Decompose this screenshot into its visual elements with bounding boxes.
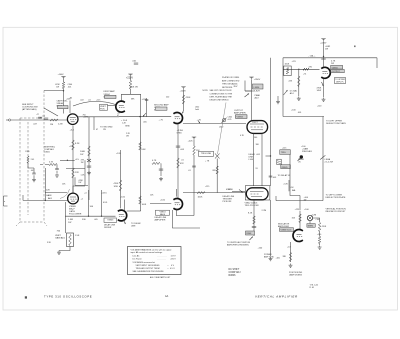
vertical x101 y190-216 xyxy=(101,190,103,216)
svg-text:DEFL PLATES AND THE: DEFL PLATES AND THE xyxy=(210,95,233,98)
shield dashed box left xyxy=(19,118,21,222)
capacitor C322 xyxy=(134,63,138,64)
svg-text:.01: .01 xyxy=(188,170,191,172)
svg-text:+225: +225 xyxy=(292,61,296,63)
resistor R3892 xyxy=(298,76,301,87)
coil L384A on defl wire xyxy=(320,155,325,159)
pointer line from note xyxy=(218,103,227,155)
svg-text:47K: 47K xyxy=(180,163,184,165)
svg-text:ADJ: ADJ xyxy=(255,96,259,99)
svg-text:4.7K: 4.7K xyxy=(49,162,54,164)
ground mid-left xyxy=(55,173,59,177)
svg-text:INDICATOR: INDICATOR xyxy=(278,223,290,226)
curved jumper to first amp xyxy=(73,101,116,106)
svg-text:+4: +4 xyxy=(81,198,83,200)
junction arrow y123 xyxy=(198,121,200,124)
resistor R307 xyxy=(72,168,75,178)
svg-text:470K: 470K xyxy=(186,97,191,99)
svg-text:12BY7: 12BY7 xyxy=(252,122,258,124)
svg-text:1mH: 1mH xyxy=(195,109,200,111)
svg-text:4.7K: 4.7K xyxy=(152,160,157,162)
capacitor C310 xyxy=(87,166,91,167)
wire V384B plate top xyxy=(73,186,85,193)
svg-text:AMPLIFIER (TRIGGER): AMPLIFIER (TRIGGER) xyxy=(227,244,249,247)
svg-text:.005: .005 xyxy=(143,122,147,124)
wire rail to grid node xyxy=(63,79,65,114)
svg-text:+225: +225 xyxy=(188,141,194,143)
wire V3853 grid in xyxy=(150,203,171,205)
tube V384A xyxy=(67,114,78,125)
wire inner y69 xyxy=(283,68,320,70)
svg-text:+100: +100 xyxy=(66,98,70,100)
svg-text:+100: +100 xyxy=(317,105,321,107)
svg-text:TYPE 310 OSCILLOSCOPE: TYPE 310 OSCILLOSCOPE xyxy=(44,295,92,299)
wire vertical x146 xyxy=(146,98,148,117)
cap on rail wire xyxy=(321,58,325,59)
svg-text:CONNECTIONS TO THE: CONNECTIONS TO THE xyxy=(210,93,233,95)
svg-text:SEE CRT CIRCUIT FOR: SEE CRT CIRCUIT FOR xyxy=(210,90,233,92)
svg-text:R3845: R3845 xyxy=(282,167,289,169)
svg-text:GAIN: GAIN xyxy=(46,194,52,197)
label V3894 box xyxy=(236,115,248,119)
svg-text:22K: 22K xyxy=(75,172,79,174)
cap on x178 xyxy=(176,146,180,147)
ground below tube xyxy=(322,98,326,102)
svg-text:2KV: 2KV xyxy=(234,86,239,88)
trigger takeoff box xyxy=(280,150,291,155)
wire bus y216 xyxy=(65,215,116,217)
ground pot xyxy=(57,251,61,255)
resistor inner h xyxy=(303,68,309,70)
resistor R332 xyxy=(182,95,185,104)
delay line termination xyxy=(222,119,225,122)
svg-text:LAMP DS3894: LAMP DS3894 xyxy=(289,274,303,277)
svg-text:6.8K: 6.8K xyxy=(142,149,147,151)
svg-text:C340: C340 xyxy=(25,151,29,153)
svg-text:1W: 1W xyxy=(81,162,84,164)
dark box PLQ xyxy=(246,231,255,235)
gain pot dot xyxy=(300,155,303,158)
shield inner ground xyxy=(32,178,36,182)
wire oval1 pins down xyxy=(254,133,263,186)
resistor R304 xyxy=(62,82,65,89)
wire rail to tube xyxy=(323,41,325,66)
svg-text:R3846: R3846 xyxy=(229,275,237,277)
junction dot bus xyxy=(88,216,89,217)
wire y90 to shield xyxy=(44,90,64,92)
svg-text:NETWORK.: NETWORK. xyxy=(222,87,233,89)
svg-text:22K: 22K xyxy=(289,80,293,82)
svg-text:NOTE: NOTE xyxy=(203,90,209,92)
svg-text:47: 47 xyxy=(96,129,98,131)
svg-text:TO DELAY 93: TO DELAY 93 xyxy=(278,174,291,177)
wire x299 down xyxy=(298,69,300,96)
wire x194 down xyxy=(193,140,195,216)
wire pot to ground xyxy=(59,247,70,251)
shield dashed box right xyxy=(43,118,45,222)
ground right of oval1 xyxy=(276,100,280,104)
dc bal pot box xyxy=(284,66,291,76)
svg-text:.01: .01 xyxy=(181,159,184,161)
svg-text:AA: AA xyxy=(165,295,169,298)
cap C365 xyxy=(252,227,256,228)
boxed label trig xyxy=(199,151,214,156)
wire x300 to tube xyxy=(299,211,301,230)
svg-text:. . . . . . . . .: . . . . . . . . . xyxy=(157,259,166,261)
capacitor C301 on input wire xyxy=(44,118,48,119)
svg-text:GRID: GRID xyxy=(125,125,130,127)
dark box V3894 right xyxy=(331,65,343,69)
svg-text:1W: 1W xyxy=(103,129,106,131)
wire tube down xyxy=(323,79,325,97)
svg-text:AMPLIFIER: AMPLIFIER xyxy=(234,112,246,115)
box to upper defl xyxy=(335,78,346,84)
svg-text:+350V: +350V xyxy=(254,79,261,81)
svg-text:+100: +100 xyxy=(276,258,280,260)
box around V3842 xyxy=(245,186,270,200)
wire V384A out right xyxy=(78,116,119,118)
cap mid-left xyxy=(55,169,59,170)
wire y168 left xyxy=(66,167,85,169)
svg-text:6AU6: 6AU6 xyxy=(160,213,166,216)
tube V3894b output xyxy=(321,67,330,78)
wire vertical x89 xyxy=(88,117,90,200)
capacitor C302 input xyxy=(38,117,42,118)
resistor R3894a xyxy=(318,223,321,232)
wire bus y116 xyxy=(119,116,171,118)
wire long x270 xyxy=(270,58,272,186)
svg-text:93: 93 xyxy=(256,168,258,170)
input connector J1 xyxy=(6,119,9,121)
wire mid-left xyxy=(56,165,58,174)
resistor on x178 xyxy=(177,158,180,168)
box B3894 xyxy=(307,224,315,228)
pot arrow mid xyxy=(245,94,250,98)
wire lamp down xyxy=(309,221,311,224)
svg-text:V3894: V3894 xyxy=(332,67,339,69)
svg-text:2.2M: 2.2M xyxy=(262,210,267,212)
svg-text:+100V: +100V xyxy=(58,74,65,76)
svg-text:DEFLECTION PLATE: DEFLECTION PLATE xyxy=(326,122,347,125)
svg-text:SECOND AMP: SECOND AMP xyxy=(154,103,169,106)
bracket cap xyxy=(245,81,254,92)
svg-text:2W: 2W xyxy=(331,63,334,65)
svg-text:117 V: 117 V xyxy=(171,256,177,258)
resistor R301 on input wire xyxy=(50,119,58,121)
arrow dc bal xyxy=(284,90,288,95)
svg-text:L3894: L3894 xyxy=(254,87,261,89)
svg-text:220: 220 xyxy=(166,96,169,98)
svg-text:225 V: 225 V xyxy=(171,259,177,261)
svg-text:+125: +125 xyxy=(96,99,100,101)
junction X x217 xyxy=(215,154,220,159)
wire x270 lower xyxy=(270,200,272,256)
svg-text:VERTICAL POSITION: VERTICAL POSITION xyxy=(326,208,347,211)
svg-text:150K 1W: 150K 1W xyxy=(130,87,138,89)
svg-text:+225: +225 xyxy=(83,117,89,119)
svg-text:V3843: V3843 xyxy=(107,220,114,222)
wire rail down elbow xyxy=(121,77,140,101)
svg-text:(ATTEN DIAG): (ATTEN DIAG) xyxy=(22,108,37,111)
wire y160 left xyxy=(60,159,75,161)
svg-text:ADJ: ADJ xyxy=(290,92,294,95)
wire defl lower xyxy=(276,196,323,201)
svg-text:TO SW GRID: TO SW GRID xyxy=(100,127,113,129)
mark bottom left xyxy=(25,296,27,298)
svg-text:VOLTAGE READINGS are DC wi: VOLTAGE READINGS are DC with no signal xyxy=(131,248,172,251)
resistor R339 h xyxy=(152,162,160,164)
wire into oval1 top xyxy=(245,80,252,121)
wire defl plate drop xyxy=(322,117,324,201)
svg-text:100K: 100K xyxy=(80,151,86,153)
svg-text:100K: 100K xyxy=(198,196,203,198)
svg-text:DRIVER: DRIVER xyxy=(104,227,112,229)
svg-text:470K: 470K xyxy=(114,183,119,185)
peaking coil box xyxy=(253,84,264,89)
svg-text:. . . . . . . . . .: . . . . . . . . . . xyxy=(157,256,167,258)
wire cathode out bottom xyxy=(65,202,67,233)
svg-text:0.5 V: 0.5 V xyxy=(170,268,175,270)
svg-text:+225: +225 xyxy=(205,186,209,188)
svg-text:560: 560 xyxy=(254,137,257,139)
wire out V3843 right xyxy=(127,210,141,212)
svg-text:1W: 1W xyxy=(304,200,307,202)
interconnect box top right xyxy=(283,58,377,117)
ground x270 xyxy=(269,257,273,261)
resistor R3894b xyxy=(318,236,321,243)
svg-text:VERTICAL AMPLIFIER: VERTICAL AMPLIFIER xyxy=(255,295,298,299)
svg-text:ADJ: ADJ xyxy=(48,197,52,200)
svg-text:THRU DELAY: THRU DELAY xyxy=(222,83,235,86)
svg-text:B3894: B3894 xyxy=(308,226,313,228)
tube V3833 xyxy=(293,230,303,242)
tube V3844 first amp xyxy=(116,101,125,112)
resistor R3835 xyxy=(289,253,292,262)
svg-text:V3894: V3894 xyxy=(237,117,244,119)
rail +225 x194 xyxy=(192,137,196,140)
wire grid2 lower seg xyxy=(23,199,68,201)
tube V3853 xyxy=(173,199,182,210)
left edge connector marks xyxy=(4,196,8,206)
svg-text:8.2K: 8.2K xyxy=(75,143,80,145)
svg-text:1W: 1W xyxy=(78,182,81,184)
ground x299 xyxy=(297,97,301,101)
svg-text:DELAY LINE SHIELD: DELAY LINE SHIELD xyxy=(210,99,230,102)
svg-text:22K: 22K xyxy=(46,190,50,192)
resistor R306 cathode xyxy=(72,140,75,150)
tube V3843 delay driver xyxy=(118,210,127,221)
svg-text:470K: 470K xyxy=(322,226,327,228)
svg-text:TO VERTICAL POSITION: TO VERTICAL POSITION xyxy=(227,241,251,244)
ground lamp chain xyxy=(318,245,322,249)
svg-text:L342: L342 xyxy=(219,127,223,129)
svg-text:2.2K: 2.2K xyxy=(284,183,289,185)
power rail +225V top xyxy=(128,74,132,77)
svg-text:DELAY: DELAY xyxy=(249,153,256,156)
svg-text:TRIGGER OUTPUT TERM: TRIGGER OUTPUT TERM xyxy=(136,268,160,270)
svg-text:FIRST AMP: FIRST AMP xyxy=(104,90,116,93)
wire x290 down xyxy=(290,155,300,211)
svg-text:DEFL PL: DEFL PL xyxy=(336,81,345,83)
svg-text:A B C SEE PARTS LIS: A B C SEE PARTS LIST xyxy=(150,276,171,279)
resistor R32 10W xyxy=(119,180,122,191)
junction y116 x140 xyxy=(139,116,140,117)
svg-text:+43.5: +43.5 xyxy=(101,193,107,195)
svg-text:AMP GRID: AMP GRID xyxy=(264,256,274,259)
svg-text:2.2M: 2.2M xyxy=(312,214,317,216)
svg-text:2.5-5.7uH: 2.5-5.7uH xyxy=(325,162,334,164)
power rail +100V left xyxy=(61,76,65,79)
pot R316 box xyxy=(67,233,74,247)
arrow on bus y192 xyxy=(239,189,243,192)
junction dot inner xyxy=(298,69,299,70)
ground x89 xyxy=(87,171,91,175)
wire V3845 out right xyxy=(183,123,246,125)
svg-text:AMPLIFIER: AMPLIFIER xyxy=(155,218,166,221)
tube V3842 oval xyxy=(246,188,268,200)
svg-text:TRIG LINE: TRIG LINE xyxy=(201,153,212,155)
svg-text:1W: 1W xyxy=(325,48,328,50)
tube V384B xyxy=(68,193,79,204)
junction dot rail xyxy=(323,56,324,57)
svg-text:SEE CALIBRATION PROCEDURE: SEE CALIBRATION PROCEDURE xyxy=(133,270,165,273)
pointer to grid xyxy=(44,108,58,116)
cap near x270 mid xyxy=(269,176,273,177)
rail +100V x185 xyxy=(181,87,185,90)
svg-text:15K: 15K xyxy=(196,150,200,152)
svg-text:6-8uH: 6-8uH xyxy=(254,90,260,92)
tube V3845 second amp xyxy=(173,113,182,124)
diode marker x89 xyxy=(87,159,91,162)
svg-text:2.2M: 2.2M xyxy=(58,123,63,125)
arc pointer to V384B xyxy=(60,189,70,199)
rail +225V right xyxy=(321,39,325,42)
shield dashed box bottom xyxy=(16,222,47,226)
label V3853 box xyxy=(156,210,170,215)
resistor R345 on bus xyxy=(197,192,205,194)
wire vertical x120 xyxy=(120,150,122,208)
svg-text:+74: +74 xyxy=(303,73,306,75)
svg-text:GRID: GRID xyxy=(177,133,183,135)
svg-text:input. All controls at nor: input. All controls at normal settings. xyxy=(131,251,163,254)
wire x85 vertical xyxy=(75,160,88,185)
wire res to gnd xyxy=(319,232,321,246)
svg-text:8.2K: 8.2K xyxy=(248,212,253,214)
shield inner resistor xyxy=(27,156,29,163)
svg-text:+225V: +225V xyxy=(126,77,133,80)
svg-text:TRIG PICKOFF: TRIG PICKOFF xyxy=(245,205,260,207)
svg-text:GAIN ADJ: GAIN ADJ xyxy=(55,237,65,240)
arrow into V3845 xyxy=(183,110,184,114)
delay line label box xyxy=(281,165,291,169)
wire long vertical x140 xyxy=(140,94,142,211)
tube V3894 oval xyxy=(247,121,268,134)
junction x270 y156 xyxy=(266,155,271,157)
svg-text:C3841: C3841 xyxy=(44,152,50,154)
svg-text:+100: +100 xyxy=(120,197,126,199)
svg-text:- CAL +: - CAL + xyxy=(309,54,317,57)
vertical x88 y190-216 xyxy=(88,190,90,216)
wire tube cathode xyxy=(290,242,292,262)
wire bus y192 xyxy=(183,192,246,194)
svg-text:+100: +100 xyxy=(69,146,73,148)
svg-text:DC SHIFT: DC SHIFT xyxy=(229,269,240,271)
svg-text:100K: 100K xyxy=(285,63,290,65)
ground ind xyxy=(289,264,293,268)
svg-text:DEFLECTION PLATE: DEFLECTION PLATE xyxy=(326,196,347,199)
svg-text:INDICATOR CIRCUIT: INDICATOR CIRCUIT xyxy=(326,210,347,213)
resistor R365 xyxy=(253,216,256,224)
svg-text:.005: .005 xyxy=(273,177,277,179)
svg-text:+100: +100 xyxy=(317,234,321,236)
arrow under V3843 xyxy=(123,219,126,224)
svg-text:7-45: 7-45 xyxy=(31,159,35,161)
svg-text:.001: .001 xyxy=(31,170,35,172)
wire grid2 left seg xyxy=(45,192,67,194)
hatch resistor box xyxy=(277,159,281,164)
wire V384A plate up xyxy=(69,101,71,114)
svg-text:OUTPUT: OUTPUT xyxy=(332,71,341,73)
rail +350V xyxy=(249,77,253,80)
svg-text:+100: +100 xyxy=(160,200,166,202)
svg-text:.01: .01 xyxy=(88,99,91,101)
svg-text:LINE: LINE xyxy=(131,225,136,227)
svg-text:47: 47 xyxy=(117,115,119,117)
shield inner cap xyxy=(32,173,35,174)
svg-text:+100V: +100V xyxy=(180,90,187,92)
svg-text:.022: .022 xyxy=(80,99,84,101)
svg-text:4-25: 4-25 xyxy=(228,119,232,121)
capacitor C339 xyxy=(159,169,163,170)
svg-text:COMP ADJ: COMP ADJ xyxy=(229,271,241,274)
resistor R344 xyxy=(193,146,196,155)
svg-text:.005: .005 xyxy=(94,219,98,221)
svg-text:VOLTAGES measured at:: VOLTAGES measured at: xyxy=(133,261,156,264)
wire vertical x178 xyxy=(177,124,179,198)
svg-text:R. M.: R. M. xyxy=(310,287,315,289)
stub x94 xyxy=(93,117,95,130)
svg-text:+1.8: +1.8 xyxy=(287,247,291,249)
svg-text:+100: +100 xyxy=(315,219,319,221)
shield dashed box top xyxy=(20,117,44,119)
svg-text:1.5K: 1.5K xyxy=(290,187,295,189)
svg-text:—: — xyxy=(167,265,169,267)
wire x45 into junction xyxy=(44,168,46,200)
junction arrow bot mid xyxy=(250,237,253,240)
resistor R322 xyxy=(129,81,132,90)
wire into V3842 left xyxy=(232,190,245,192)
ground x161 xyxy=(159,177,163,181)
svg-text:PLATES OF V3894: PLATES OF V3894 xyxy=(222,76,240,79)
wire lamp chain right xyxy=(313,218,320,222)
svg-text:100K: 100K xyxy=(142,204,147,206)
resistor mid-left 4.7K xyxy=(49,163,57,165)
svg-text:CATH: CATH xyxy=(69,210,75,213)
lamp B3894 xyxy=(307,215,312,220)
svg-text:1W: 1W xyxy=(126,136,129,138)
svg-text:R3841 ADJ: R3841 ADJ xyxy=(302,150,312,153)
svg-text:1M: 1M xyxy=(50,124,53,126)
svg-text:ARE CONNECTED: ARE CONNECTED xyxy=(222,79,240,82)
stub x23 xyxy=(22,195,24,200)
svg-text:10W: 10W xyxy=(114,186,118,188)
wire stub midleft xyxy=(40,164,49,166)
notes box xyxy=(128,247,182,275)
svg-text:V3833 6CL6: V3833 6CL6 xyxy=(281,230,292,232)
svg-text:FOLLOWER: FOLLOWER xyxy=(69,213,82,215)
svg-text:DC Power: DC Power xyxy=(133,259,142,261)
svg-text:1.5M: 1.5M xyxy=(68,219,73,221)
